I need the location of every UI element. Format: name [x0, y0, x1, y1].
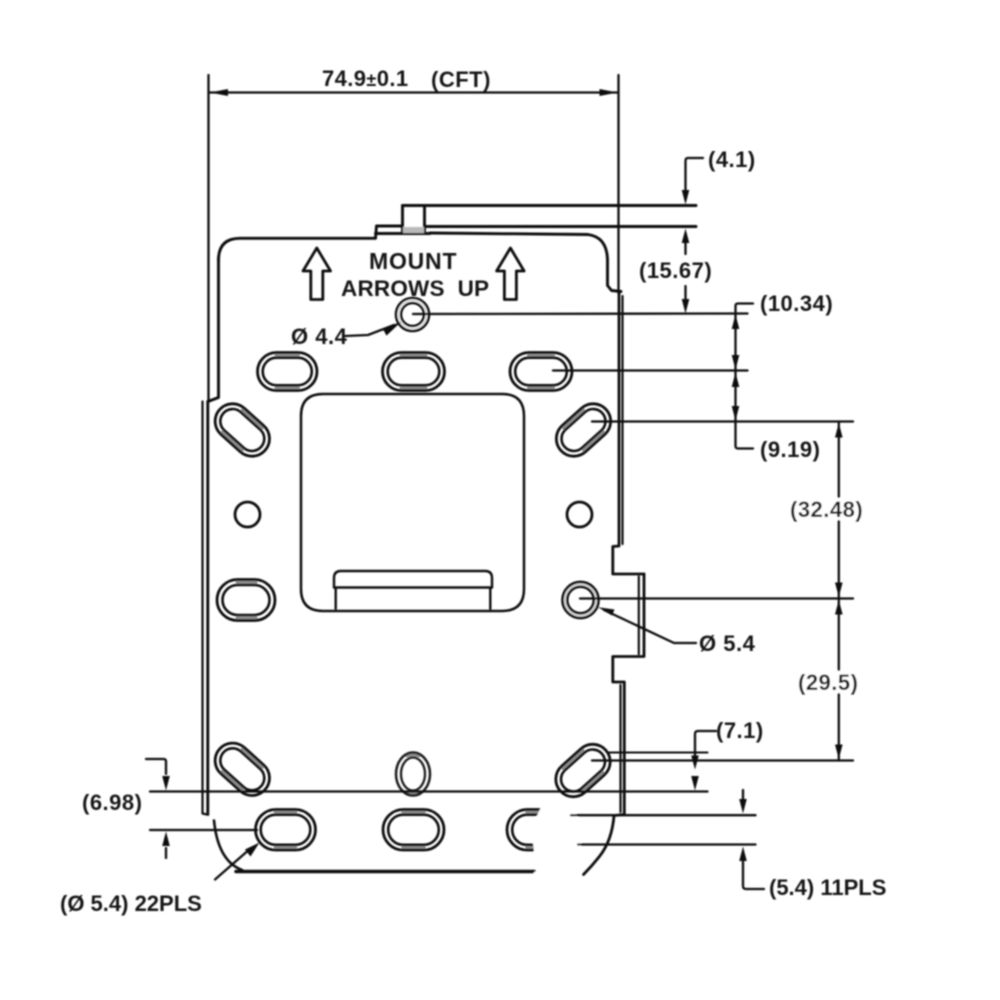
node top edge line B: [425, 225, 697, 228]
mount arrow left: [303, 248, 331, 300]
bracket right edge profile: [584, 292, 645, 875]
svg-text:(10.34): (10.34): [760, 291, 833, 316]
hole slot row1 A: [258, 353, 318, 391]
hole diagonal slot top-right: [549, 397, 618, 464]
svg-text:(Ø 5.4) 22PLS: (Ø 5.4) 22PLS: [60, 891, 202, 916]
svg-text:74.9±0.1: 74.9±0.1: [322, 66, 409, 91]
bracket left flange double edge: [203, 402, 209, 815]
dimension 74.9 line: [209, 75, 619, 400]
svg-text:(15.67): (15.67): [639, 258, 712, 283]
white blob erasure: [533, 797, 581, 881]
svg-text:(32.48): (32.48): [790, 497, 863, 522]
hole slot bottom row 2: [383, 810, 444, 851]
dimension (32.48): [838, 422, 840, 599]
dimension chain 10.34 / 9.19: [553, 304, 853, 449]
svg-text:Ø 5.4: Ø 5.4: [699, 631, 756, 656]
extension line through D4.4 circle: [413, 312, 748, 315]
hole small oval bottom center: [396, 753, 430, 796]
hole circle D5.4 right: [563, 582, 599, 618]
hole small circle right: [567, 502, 592, 527]
wire extension line y=752.5: [609, 751, 708, 753]
dimension (7.1): [695, 731, 716, 756]
svg-text:(4.1): (4.1): [708, 147, 756, 172]
hole diagonal slot top-left: [208, 397, 277, 464]
wire bottom-right corner curve: [584, 816, 615, 875]
dimension (5.4) 11PLS: [571, 790, 764, 889]
hole diagonal slot bottom-right: [549, 737, 618, 804]
dimension (6.98): [146, 759, 708, 858]
wire left edge upper: [208, 258, 219, 402]
hole diagonal slot bottom-left: [208, 736, 277, 803]
hole slot bottom row 3 (clipped by blob): [507, 810, 568, 851]
hole slot row1 C: [510, 353, 572, 391]
extension line right diag slot row: [592, 759, 853, 761]
mount arrow right: [497, 248, 524, 300]
svg-text:(9.19): (9.19): [760, 437, 820, 462]
svg-text:(7.1): (7.1): [716, 718, 764, 743]
tab shading: [403, 227, 424, 233]
extension line through D5.4 circle: [580, 597, 853, 599]
node tab top line A: [403, 204, 697, 207]
hole slot left column: [217, 580, 275, 621]
hole circle D4.4 top: [396, 298, 429, 331]
dimension (15.67) arrows: [682, 229, 690, 244]
hole slot row1 B: [383, 353, 445, 391]
svg-text:(5.4) 11PLS: (5.4) 11PLS: [769, 875, 886, 900]
wire bottom-left corner: [214, 821, 242, 871]
central cutout: [301, 394, 524, 611]
hole small circle left: [235, 502, 260, 527]
mounting tab: [403, 206, 425, 234]
dimension (29.5): [838, 599, 840, 761]
svg-text:(CFT): (CFT): [431, 67, 491, 92]
wire top-right edge with corner: [430, 233, 621, 292]
bracket outline top-left corner and top edge: [208, 206, 696, 402]
svg-text:ARROWS UP: ARROWS UP: [341, 276, 489, 301]
bracket bottom edge: [236, 870, 534, 874]
svg-text:Ø 4.4: Ø 4.4: [291, 324, 348, 349]
label (O5.4) 22PLS with leader: [215, 848, 251, 880]
wire shelf band: [334, 571, 492, 609]
wire under-tab edge: [376, 232, 431, 235]
svg-text:(6.98): (6.98): [82, 790, 142, 815]
svg-text:(29.5): (29.5): [798, 670, 858, 695]
dimension (4.1) leader: [686, 158, 704, 200]
hole slot bottom row 1: [256, 810, 316, 851]
svg-text:MOUNT: MOUNT: [369, 248, 457, 274]
